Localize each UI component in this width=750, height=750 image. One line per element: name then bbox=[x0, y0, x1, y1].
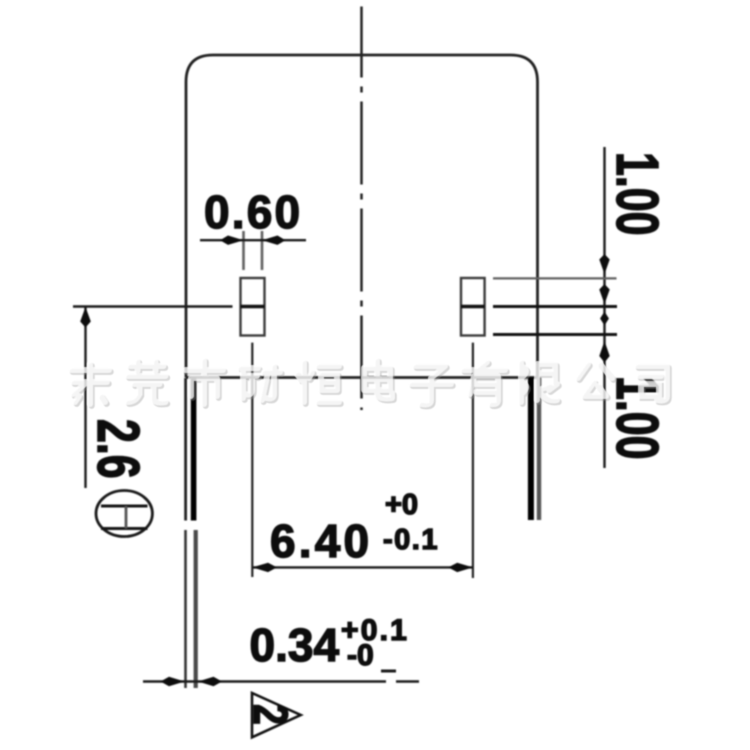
dimension 0.60: extension lines bbox=[242, 231, 245, 270]
dimension 6.40: right arrow bbox=[448, 563, 473, 572]
dimension 0.34: dimension line bbox=[143, 680, 386, 682]
pin mid extension line bbox=[493, 305, 617, 308]
stray dash near -0 tolerance bbox=[381, 670, 396, 673]
dimension 6.40: extension lines below pins bbox=[251, 343, 253, 577]
datum symbol: circle with rotated H bbox=[96, 491, 152, 537]
dimension 6.40: dimension line bbox=[252, 566, 473, 568]
dimension 0.60: dimension line bbox=[200, 239, 306, 241]
1.00 arrow down above pin mid line bbox=[599, 284, 609, 304]
left pin outline bbox=[241, 278, 265, 336]
watermark shadow pass bbox=[73, 362, 669, 407]
left leg (upper thick double line) bbox=[184, 378, 187, 521]
svg-text:-0: -0 bbox=[347, 639, 374, 672]
watermark highlight pass bbox=[71, 360, 667, 405]
left leg (lower thin double line) bbox=[184, 530, 187, 688]
svg-text:2.6: 2.6 bbox=[85, 419, 151, 479]
dimension 6.40: left arrow bbox=[252, 563, 277, 572]
svg-text:-0.1: -0.1 bbox=[383, 524, 439, 556]
centerline (vertical dash-dot axis) bbox=[360, 7, 363, 411]
pin top extension line (gray) bbox=[493, 277, 617, 279]
1.00 arrow down above pin top line bbox=[599, 254, 609, 274]
component body outline (rounded-top rectangle) bbox=[186, 55, 538, 378]
right pin outline bbox=[461, 278, 485, 336]
1.00 arrow up below pin bottom line bbox=[599, 341, 609, 363]
svg-text:1.00: 1.00 bbox=[604, 152, 670, 235]
right leg (thick double line) bbox=[528, 378, 534, 521]
svg-text:0.34: 0.34 bbox=[250, 619, 340, 671]
dimension 0.34: right arrow bbox=[198, 677, 222, 686]
dimension 0.34: left arrow bbox=[161, 677, 185, 686]
dimension 2.6: dimension line bbox=[84, 307, 86, 489]
dimension 1.00 (x2): vertical dimension line bbox=[603, 147, 605, 468]
dimension 0.60: right arrow bbox=[262, 236, 286, 245]
svg-text:0.60: 0.60 bbox=[204, 186, 302, 238]
svg-text:6.40: 6.40 bbox=[270, 515, 372, 567]
1.00 diamond arrow pair below pin mid line bbox=[600, 312, 609, 326]
left pin divider bbox=[241, 305, 265, 308]
dimension 2.6: up arrow bbox=[80, 307, 91, 328]
pin bottom extension line bbox=[493, 333, 617, 336]
svg-text:2: 2 bbox=[243, 704, 297, 725]
edge-condition triangle symbol bbox=[252, 693, 301, 737]
right pin divider bbox=[461, 305, 485, 308]
body bottom edge bbox=[186, 376, 538, 379]
dimension 0.60: left arrow bbox=[220, 236, 244, 245]
dimension 2.6: reference line to pin mid bbox=[73, 305, 233, 307]
svg-text:+0: +0 bbox=[385, 489, 418, 521]
